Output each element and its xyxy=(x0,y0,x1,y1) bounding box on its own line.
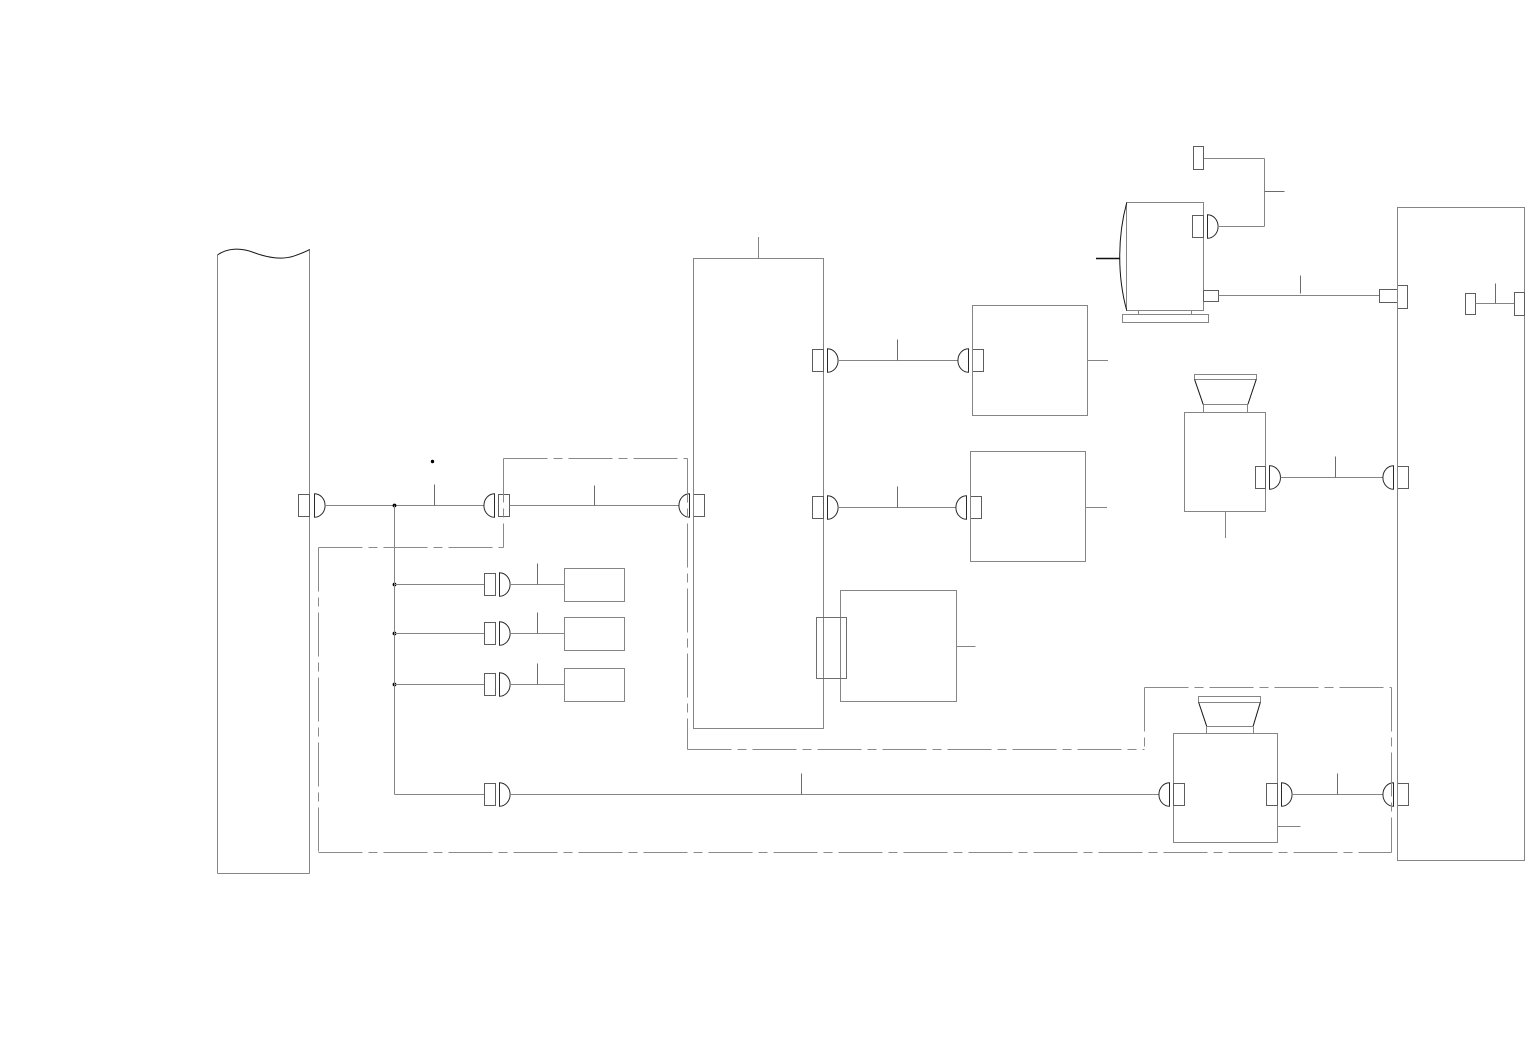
wire bus riser to connector row 1 xyxy=(395,584,485,586)
port at box2 left (rect) xyxy=(971,497,982,519)
stray node dot xyxy=(431,460,434,463)
horn2 right dome xyxy=(1282,783,1293,807)
connector rect row 3 xyxy=(485,674,496,696)
horn1 right port rect xyxy=(1256,467,1266,489)
dome at tall panel row bottom xyxy=(1383,783,1394,807)
dome at box1 left xyxy=(958,349,969,373)
wire tick marker right of horn1 xyxy=(1335,457,1337,478)
box2 right stub xyxy=(1086,507,1108,509)
connector port on bus (rect) xyxy=(299,495,310,517)
dash-dot enclosure boundary top edge of small bay xyxy=(504,458,688,460)
horn1 trapezoid bottom line xyxy=(1204,404,1248,406)
box2 outline xyxy=(971,452,1086,562)
wire tick marker x594 xyxy=(594,486,596,506)
dome at box2 left xyxy=(956,496,967,520)
small box row 3 xyxy=(565,669,625,702)
block right port A (rect) xyxy=(813,350,824,372)
horn2 neck right xyxy=(1253,727,1255,734)
port at box1 left (rect) xyxy=(973,350,984,372)
motor base plate xyxy=(1123,315,1209,323)
motor body xyxy=(1127,203,1204,311)
connector port at dashed boundary (rect) xyxy=(499,495,510,517)
dash-dot enclosure boundary top-left edge xyxy=(319,547,504,549)
wire horn1 to tall panel xyxy=(1281,477,1384,479)
wire block to box1 xyxy=(838,360,958,362)
bus column bottom edge xyxy=(218,873,310,875)
wire block to box2 xyxy=(838,507,956,509)
dash-dot enclosure boundary left edge xyxy=(318,548,320,853)
horn2 trapezoid left side xyxy=(1199,703,1207,727)
motor bottom port rect xyxy=(1204,291,1219,302)
horn2 left port rect xyxy=(1174,784,1185,806)
horn2 neck left xyxy=(1206,727,1208,734)
wire tick marker right of horn2 xyxy=(1337,774,1339,795)
wire tick marker x434 xyxy=(434,485,436,506)
block right port B (rect) xyxy=(813,497,824,519)
bottom wire connector rect xyxy=(485,784,496,806)
horn2 body xyxy=(1174,734,1278,843)
wire connector to box row 3 xyxy=(510,684,565,686)
small box row 2 xyxy=(565,618,625,651)
connector dome on bus xyxy=(315,494,326,518)
bus column wavy break top xyxy=(218,249,310,258)
wire tick marker row 2 xyxy=(537,613,539,634)
bus riser vertical wire xyxy=(394,506,396,795)
tall panel outline xyxy=(1398,208,1525,861)
junction dot row 2 xyxy=(393,632,397,636)
wire connector to box row 1 xyxy=(510,584,565,586)
connector port at central block left (rect) xyxy=(694,495,705,517)
small box row 1 xyxy=(565,569,625,602)
central block outline xyxy=(694,259,824,729)
wire horn2 to tall panel xyxy=(1292,794,1383,796)
dash-dot enclosure boundary right edge xyxy=(1391,688,1393,853)
dash-dot enclosure boundary step vertical xyxy=(1144,688,1146,750)
horn2 bottom-right stub xyxy=(1278,826,1301,828)
motor top port rect xyxy=(1193,216,1204,238)
port at tall panel row top (rect) xyxy=(1398,286,1408,309)
wire tick marker row 1 xyxy=(537,564,539,585)
motor top dome xyxy=(1208,215,1219,239)
wire tick marker motor row xyxy=(1300,276,1302,294)
terminal rect above motor xyxy=(1194,147,1204,170)
dash-dot enclosure boundary upper right edge xyxy=(1145,687,1392,689)
wire bus to junction xyxy=(325,505,484,507)
dash-dot enclosure boundary bottom edge xyxy=(319,852,1392,854)
mid box outline xyxy=(841,591,957,702)
mid box right stub xyxy=(957,646,976,648)
horn2 top band xyxy=(1199,697,1261,703)
wire corner vertical xyxy=(1264,159,1266,227)
connector dome row 1 xyxy=(500,573,511,597)
block right dome B xyxy=(828,496,839,520)
dome at tall panel row mid xyxy=(1383,466,1394,490)
motor foot right xyxy=(1191,311,1193,315)
dash-dot enclosure boundary lower middle edge xyxy=(688,749,1145,751)
panel internal port rect left xyxy=(1466,294,1476,315)
horn2 left dome xyxy=(1159,783,1170,807)
horn1 trapezoid right side xyxy=(1248,380,1256,405)
connector dome row 3 xyxy=(500,673,511,697)
dash-dot enclosure boundary small bay left edge xyxy=(503,459,505,548)
horizontal tick marker on corner wire xyxy=(1265,191,1285,193)
motor shaft stub left xyxy=(1096,258,1120,260)
horn1 right dome xyxy=(1270,466,1281,490)
bus column right edge xyxy=(309,250,311,874)
panel internal tick marker xyxy=(1495,284,1497,304)
horn2 right port rect xyxy=(1267,784,1278,806)
motor front bell arc xyxy=(1120,203,1127,311)
bottom wire horizontal from riser xyxy=(395,794,485,796)
panel internal port rect right xyxy=(1515,293,1525,316)
connector dome row 2 xyxy=(500,622,511,646)
connector rect row 1 xyxy=(485,574,496,596)
wire bus riser to connector row 2 xyxy=(395,633,485,635)
wire tick marker row B xyxy=(897,487,899,508)
port at tall panel row bottom (rect) xyxy=(1398,784,1409,806)
bottom wire tick marker xyxy=(801,774,803,795)
wire motor dome to corner xyxy=(1218,226,1265,228)
motor foot left xyxy=(1138,311,1140,315)
junction node dot xyxy=(393,504,397,508)
bridge coupling rect between block and mid box xyxy=(817,618,847,679)
connector dome at dashed boundary xyxy=(484,494,495,518)
horn2 trapezoid right side xyxy=(1253,703,1260,727)
bottom wire connector dome xyxy=(500,783,511,807)
horn2 trapezoid bottom line xyxy=(1207,726,1254,728)
horn1 neck left xyxy=(1203,405,1205,413)
horn1 bottom stub xyxy=(1225,512,1227,539)
dash-dot enclosure boundary right edge of small bay xyxy=(687,459,689,750)
panel internal wire xyxy=(1476,303,1515,305)
horn1 neck right xyxy=(1247,405,1249,413)
horn1 top band xyxy=(1195,375,1257,380)
central block top stub xyxy=(758,237,760,259)
wire bus riser to connector row 3 xyxy=(395,684,485,686)
port at tall panel row mid (rect) xyxy=(1398,467,1409,489)
box1 outline xyxy=(973,306,1088,416)
wire to central block xyxy=(510,505,680,507)
connector rect row 2 xyxy=(485,623,496,645)
horn1 body xyxy=(1185,413,1266,512)
junction dot row 1 xyxy=(393,583,397,587)
flat terminal at tall panel (rect) xyxy=(1380,290,1398,303)
block right dome A xyxy=(828,349,839,373)
wire connector to box row 2 xyxy=(510,633,565,635)
box1 right stub xyxy=(1088,360,1109,362)
bottom long wire to horn2 xyxy=(510,794,1160,796)
wire tick marker row A xyxy=(897,340,899,361)
wire tick marker row 3 xyxy=(537,664,539,685)
wire motor to tall panel xyxy=(1219,295,1380,297)
bus column left edge xyxy=(217,255,219,874)
connector dome at central block left xyxy=(679,494,690,518)
horn1 trapezoid left side xyxy=(1195,380,1204,405)
junction dot row 3 xyxy=(393,683,397,687)
wire corner top horizontal xyxy=(1204,158,1265,160)
